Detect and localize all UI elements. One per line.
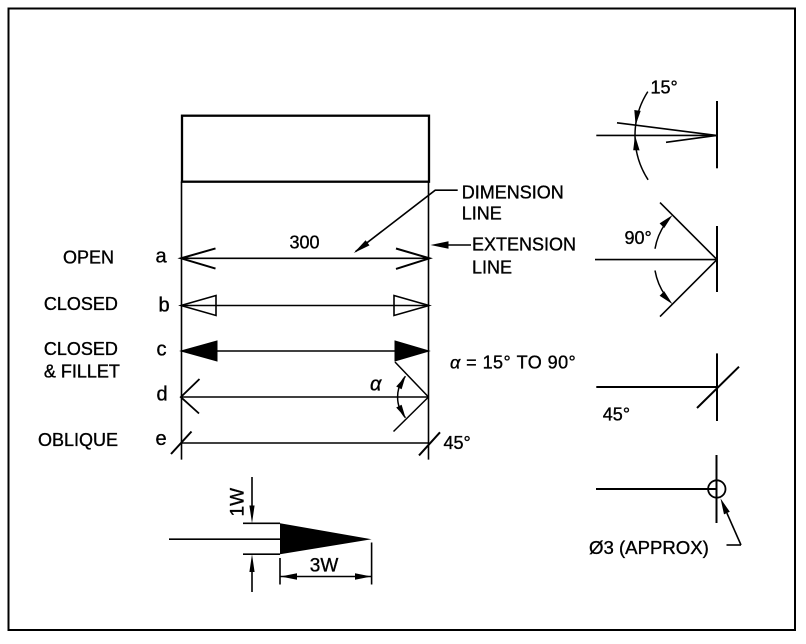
- filled arrowhead c left: [181, 341, 217, 361]
- leader DIMENSION LINE: [356, 190, 458, 251]
- dimension line a (300): [182, 257, 429, 259]
- bottom fig: bottom extension line: [243, 553, 280, 555]
- fig 15deg: arc arrow upper: [634, 110, 640, 125]
- bottom fig: 1W upper arrow line: [251, 477, 253, 508]
- fig 90deg: dimension line: [595, 259, 717, 261]
- open 90 arrowhead d left: [181, 379, 200, 414]
- svg-text:45°: 45°: [444, 433, 471, 453]
- fig dot: leader horizontal: [727, 544, 742, 546]
- svg-text:LINE: LINE: [462, 204, 502, 224]
- extension line left: [181, 182, 183, 460]
- bottom fig: 3W right arrow: [355, 573, 371, 579]
- bottom fig: 3W left extension: [279, 558, 281, 585]
- svg-text:α: α: [370, 374, 382, 396]
- fig 90deg: lower angle arc: [655, 271, 665, 296]
- bottom fig: 3W dimension line: [280, 576, 372, 578]
- svg-text:c: c: [157, 339, 167, 361]
- svg-text:OPEN: OPEN: [63, 248, 114, 268]
- oblique tick e right: [419, 432, 440, 455]
- closed arrowhead b right: [394, 296, 429, 316]
- fig 15deg: angle arc: [635, 92, 648, 180]
- open 90 arrowhead d right lower barb: [394, 397, 429, 432]
- open arrowhead a left: [181, 248, 216, 268]
- bottom fig: 1W lower arrow: [249, 554, 254, 572]
- fig dot: leader line: [727, 513, 741, 545]
- open 90 arrowhead d right upper barb: [395, 362, 429, 397]
- svg-text:DIMENSION: DIMENSION: [462, 183, 564, 203]
- svg-text:15°: 15°: [651, 78, 678, 98]
- fig 45deg: oblique tick: [697, 367, 739, 408]
- bottom fig: leader line: [169, 538, 280, 540]
- alpha angle arc: [398, 376, 406, 417]
- leader EXTENSION LINE: [447, 244, 471, 246]
- bottom fig: 3W right extension: [371, 543, 373, 585]
- open arrowhead a right: [396, 249, 430, 269]
- svg-text:EXTENSION: EXTENSION: [472, 235, 576, 255]
- bottom fig: 1W lower arrow line: [251, 570, 253, 592]
- svg-text:α = 15° TO 90°: α = 15° TO 90°: [450, 353, 576, 373]
- bottom fig: big filled arrowhead: [280, 523, 372, 554]
- fig 15deg: arc arrow lower: [633, 135, 639, 150]
- svg-text:OBLIQUE: OBLIQUE: [38, 430, 118, 450]
- dimension line e: [182, 442, 429, 444]
- fig dot: circle: [708, 480, 725, 497]
- bottom fig: 1W upper arrow: [249, 506, 254, 524]
- svg-text:300: 300: [290, 233, 320, 253]
- svg-text:3W: 3W: [310, 556, 339, 577]
- alpha arc arrow lower: [396, 405, 405, 418]
- svg-text:& FILLET: & FILLET: [44, 362, 120, 382]
- closed arrowhead b left: [181, 296, 216, 316]
- filled arrowhead c right: [395, 341, 429, 361]
- svg-text:90°: 90°: [625, 228, 652, 248]
- svg-text:Ø3 (APPROX): Ø3 (APPROX): [589, 537, 709, 558]
- fig 15deg: lower barb: [666, 135, 717, 142]
- leader arrow extension: [431, 241, 449, 248]
- oblique tick e left: [171, 432, 192, 455]
- fig 90deg: upper arc arrow: [660, 215, 673, 228]
- fig 15deg: extension line: [716, 101, 718, 168]
- fig dot: dimension line: [596, 488, 717, 490]
- fig 90deg: extension line: [716, 226, 718, 292]
- part outline rectangle: [182, 116, 429, 182]
- svg-text:a: a: [156, 246, 168, 268]
- fig 90deg: lower barb: [660, 260, 717, 317]
- dimension line c: [182, 350, 429, 352]
- fig 90deg: lower arc arrow: [660, 291, 673, 304]
- svg-text:LINE: LINE: [472, 258, 512, 278]
- extension line right: [428, 182, 430, 460]
- fig 90deg: upper angle arc: [655, 224, 665, 249]
- svg-text:1W: 1W: [228, 488, 249, 517]
- fig 45deg: dimension line: [596, 386, 717, 388]
- bottom fig: top extension line: [243, 522, 280, 524]
- dimension line d: [182, 396, 429, 398]
- fig dot: leader arrow: [721, 498, 730, 514]
- bottom fig: 3W left arrow: [281, 573, 298, 579]
- dimension line b: [182, 305, 429, 307]
- svg-text:e: e: [156, 428, 167, 450]
- svg-text:45°: 45°: [603, 404, 630, 424]
- svg-text:CLOSED: CLOSED: [44, 339, 118, 359]
- svg-text:d: d: [157, 383, 168, 405]
- alpha arc arrow upper: [396, 376, 405, 389]
- fig 15deg: dimension line: [596, 134, 717, 136]
- fig 15deg: upper barb: [617, 123, 717, 136]
- svg-text:b: b: [159, 295, 170, 317]
- svg-text:CLOSED: CLOSED: [44, 294, 118, 314]
- fig 90deg: upper barb: [660, 203, 717, 260]
- fig 45deg: extension line: [716, 353, 718, 421]
- fig dot: extension line: [716, 455, 718, 523]
- leader arrow dimension: [354, 240, 370, 253]
